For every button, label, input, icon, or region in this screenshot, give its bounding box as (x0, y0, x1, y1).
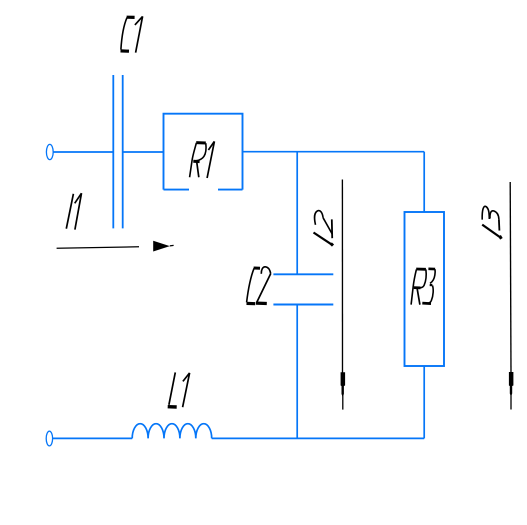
label I2 (rotated) (314, 211, 334, 246)
label R3 (411, 269, 435, 305)
label C2 (247, 267, 271, 304)
label I1 (66, 193, 81, 229)
wire R3 bottom lead (423, 366, 425, 438)
capacitor C1 (113, 75, 122, 228)
label L1 (168, 372, 190, 407)
current arrow I3 head (509, 372, 514, 410)
wire bottom-left segment (53, 437, 132, 439)
wire top-left segment (53, 151, 113, 153)
current arrow I1 line (57, 247, 139, 248)
resistor R1 (164, 114, 243, 190)
wire C2 bottom lead (296, 305, 298, 439)
wire right corner down to R3 (423, 152, 425, 212)
label R1 (190, 141, 215, 178)
terminal (top-left input) (46, 144, 53, 159)
current arrow I2 line (341, 180, 343, 373)
current arrow I3 line (509, 182, 512, 372)
wire R1 to right corner (243, 151, 425, 153)
current arrow I2 head (341, 372, 346, 409)
resistor R3 (405, 212, 445, 366)
node junction C2 top lead (296, 152, 298, 275)
wire bottom-right segment (212, 437, 425, 439)
label C1 (121, 16, 143, 52)
label I3 (rotated) (482, 206, 501, 239)
inductor L1 (132, 424, 212, 439)
current arrow I1 head (153, 241, 173, 252)
terminal (bottom-left input) (46, 431, 52, 446)
wire C1 to R1 (123, 151, 164, 153)
capacitor C2 (273, 274, 333, 304)
